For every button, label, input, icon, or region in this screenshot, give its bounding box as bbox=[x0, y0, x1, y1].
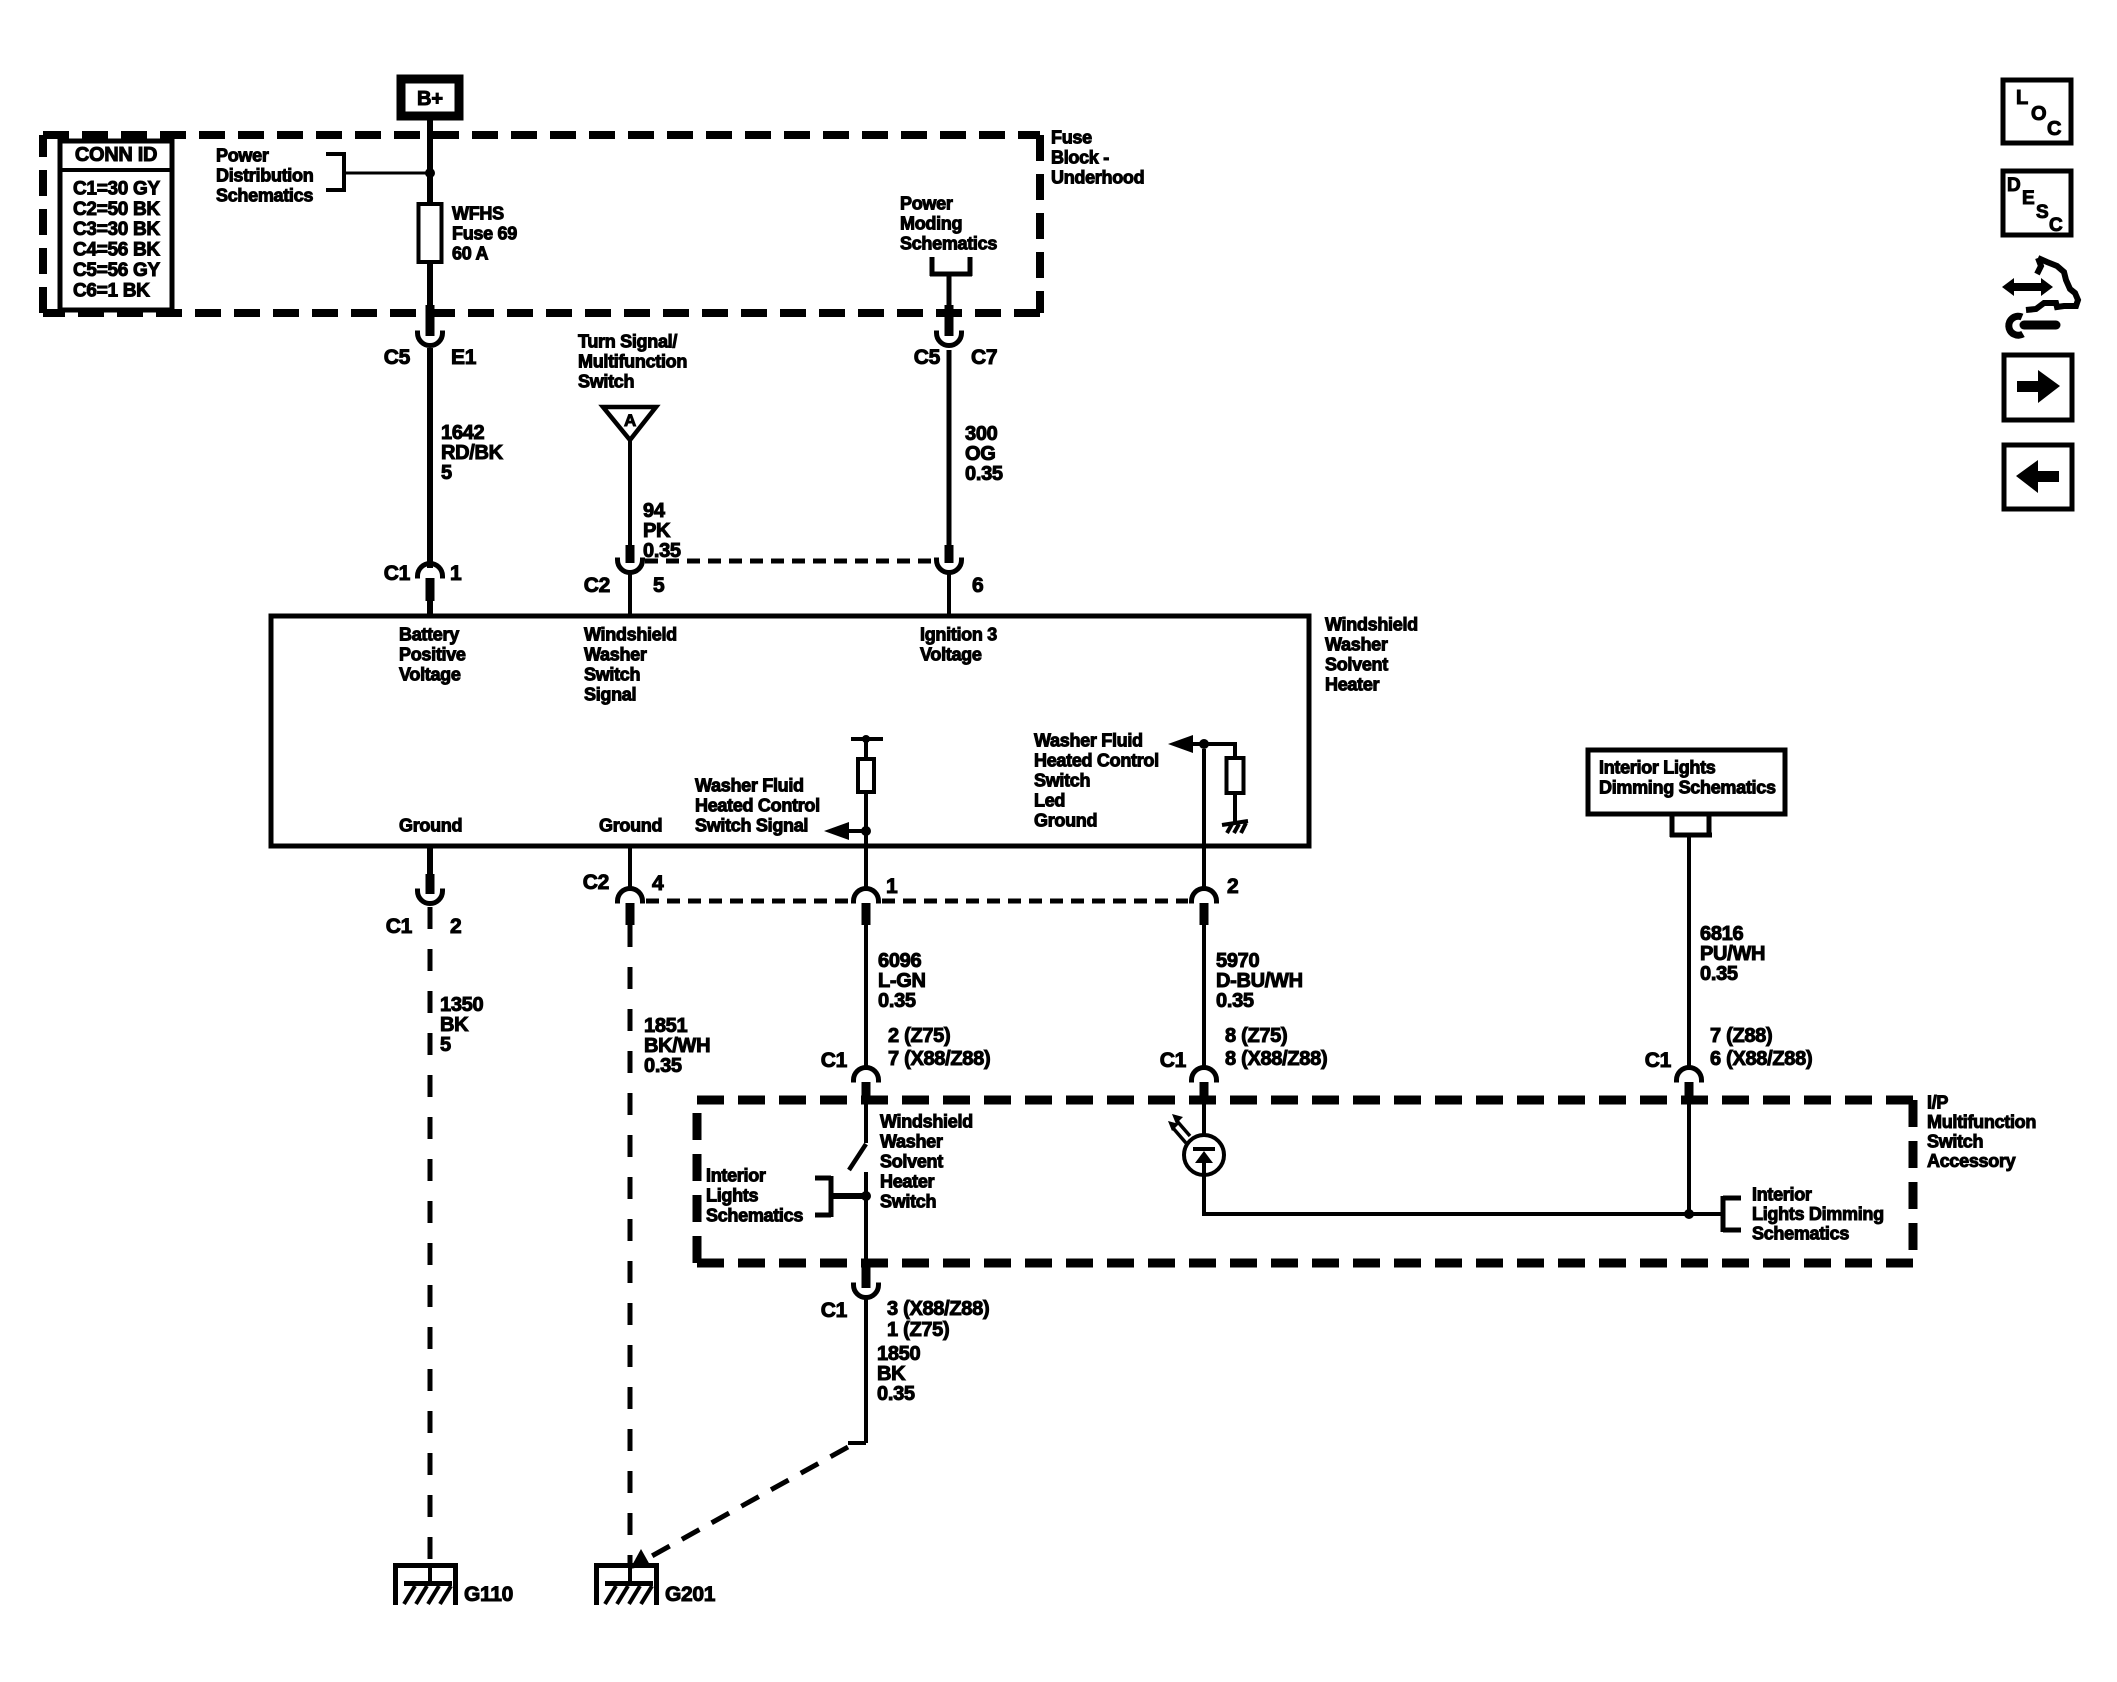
svg-text:1350: 1350 bbox=[440, 994, 483, 1016]
svg-text:1850: 1850 bbox=[877, 1343, 920, 1365]
wire - fuse output down to C5 connector (5 ga) bbox=[427, 262, 433, 310]
connector C2-4 (module ground out) bbox=[618, 889, 643, 902]
svg-text:G110: G110 bbox=[464, 1583, 513, 1606]
bracket - power distribution tie bbox=[326, 152, 344, 156]
svg-text:Windshield: Windshield bbox=[1325, 615, 1418, 635]
svg-text:PK: PK bbox=[643, 520, 671, 542]
svg-text:Ground: Ground bbox=[399, 816, 462, 836]
wire - led ground to pin 2 bbox=[1202, 749, 1206, 889]
svg-text:L-GN: L-GN bbox=[878, 970, 926, 992]
wire 6096 L-GN 0.35 bbox=[864, 925, 868, 1068]
svg-text:A: A bbox=[624, 411, 636, 430]
svg-text:Interior: Interior bbox=[706, 1166, 766, 1186]
svg-text:C: C bbox=[2049, 215, 2063, 236]
svg-text:Heated Control: Heated Control bbox=[695, 796, 820, 816]
wire - led ground to interior lights dimming (horizontal) bbox=[1204, 1212, 1723, 1216]
connector pin 1 (switch signal) bbox=[854, 889, 879, 902]
svg-text:C5=56 GY: C5=56 GY bbox=[73, 260, 160, 281]
svg-text:Washer: Washer bbox=[584, 645, 647, 665]
connector C2-5 (washer switch signal) bbox=[626, 545, 635, 563]
svg-text:C1: C1 bbox=[821, 1299, 848, 1322]
svg-text:Heater: Heater bbox=[880, 1172, 935, 1192]
svg-text:C6=1 BK: C6=1 BK bbox=[73, 280, 150, 301]
svg-text:Lights Dimming: Lights Dimming bbox=[1752, 1204, 1884, 1224]
node - junction dot on B+ feed bbox=[425, 168, 435, 178]
svg-text:7 (X88/Z88): 7 (X88/Z88) bbox=[888, 1048, 990, 1070]
svg-text:C1=30 GY: C1=30 GY bbox=[73, 178, 160, 199]
bracket - dimming schematics feed bbox=[1670, 814, 1675, 837]
arrow - switch signal points left bbox=[824, 822, 849, 840]
svg-text:6 (X88/Z88): 6 (X88/Z88) bbox=[1710, 1048, 1812, 1070]
svg-text:3 (X88/Z88): 3 (X88/Z88) bbox=[887, 1298, 989, 1320]
node - junction dimming net bbox=[1684, 1209, 1694, 1219]
svg-text:5: 5 bbox=[440, 1034, 451, 1056]
wire - B+ feed down into fuse block (5 ga) bbox=[427, 116, 433, 206]
svg-text:Dimming Schematics: Dimming Schematics bbox=[1599, 778, 1776, 798]
connector C1-2 (module ground out) bbox=[426, 874, 435, 894]
arrow - splice points at G201 bbox=[630, 1549, 650, 1569]
node A - turn signal multifunction switch triangle bbox=[603, 407, 656, 440]
svg-text:Voltage: Voltage bbox=[920, 645, 982, 665]
svg-text:G201: G201 bbox=[665, 1583, 716, 1606]
svg-text:6816: 6816 bbox=[1700, 923, 1743, 945]
component box - I/P Multifunction Switch Accessory (dashed) bbox=[697, 1096, 1913, 1105]
svg-text:Washer: Washer bbox=[1325, 635, 1388, 655]
icon - back arrow button bbox=[2004, 445, 2072, 509]
svg-text:0.35: 0.35 bbox=[644, 1055, 682, 1077]
svg-text:Windshield: Windshield bbox=[880, 1112, 973, 1132]
svg-text:C5: C5 bbox=[914, 346, 941, 369]
svg-text:8 (X88/Z88): 8 (X88/Z88) bbox=[1225, 1048, 1327, 1070]
svg-text:Switch Signal: Switch Signal bbox=[695, 816, 808, 836]
svg-text:0.35: 0.35 bbox=[878, 990, 916, 1012]
svg-text:C: C bbox=[2047, 118, 2061, 140]
component box - Windshield Washer Solvent Heater module bbox=[271, 616, 1309, 846]
svg-text:Washer Fluid: Washer Fluid bbox=[1034, 731, 1143, 751]
connector 6 (ignition 3 into module) bbox=[945, 545, 954, 563]
icon - forward arrow button bbox=[2004, 355, 2072, 420]
svg-text:BK/WH: BK/WH bbox=[644, 1035, 710, 1057]
svg-text:BK: BK bbox=[877, 1363, 906, 1385]
svg-text:Multifunction: Multifunction bbox=[1927, 1112, 2036, 1132]
svg-text:Accessory: Accessory bbox=[1927, 1151, 2016, 1171]
svg-text:C7: C7 bbox=[971, 346, 997, 369]
table - CONN ID legend bbox=[60, 141, 172, 310]
svg-text:Switch: Switch bbox=[880, 1192, 936, 1212]
svg-text:Voltage: Voltage bbox=[399, 665, 461, 685]
svg-text:Heater: Heater bbox=[1325, 675, 1380, 695]
svg-text:60 A: 60 A bbox=[452, 244, 488, 264]
wire 1850 BK 0.35 bbox=[864, 1297, 868, 1443]
svg-text:2 (Z75): 2 (Z75) bbox=[888, 1025, 950, 1047]
internal chassis ground - led ground bbox=[1222, 821, 1248, 825]
connector C1 (switch signal into I/P switch) bbox=[854, 1068, 879, 1081]
svg-text:1642: 1642 bbox=[441, 422, 484, 444]
svg-text:1 (Z75): 1 (Z75) bbox=[887, 1319, 949, 1341]
svg-text:PU/WH: PU/WH bbox=[1700, 943, 1765, 965]
wire - switch output down bbox=[864, 1196, 868, 1265]
connector pin 2 (led ground) bbox=[1192, 889, 1217, 902]
svg-text:Positive: Positive bbox=[399, 645, 466, 665]
svg-text:5: 5 bbox=[653, 574, 665, 597]
svg-text:S: S bbox=[2036, 202, 2049, 223]
wire - battery feed into module (5 ga) bbox=[427, 598, 433, 618]
svg-text:1: 1 bbox=[886, 875, 898, 898]
svg-text:Windshield: Windshield bbox=[584, 625, 677, 645]
svg-text:Battery: Battery bbox=[399, 625, 459, 645]
wire - led cathode to dimming net bbox=[1202, 1175, 1206, 1216]
wire 6816 PU/WH 0.35 bbox=[1687, 837, 1691, 1068]
component box - Fuse Block Underhood (dashed) bbox=[43, 131, 1040, 139]
svg-text:OG: OG bbox=[965, 443, 996, 465]
connector C5-C7 (fuse block to harness) bbox=[945, 305, 954, 336]
svg-text:E1: E1 bbox=[451, 346, 477, 369]
svg-text:0.35: 0.35 bbox=[877, 1383, 915, 1405]
internal resistor - led ground dropping resistor bbox=[1204, 742, 1235, 746]
svg-text:Power: Power bbox=[216, 146, 269, 166]
svg-text:Switch: Switch bbox=[584, 665, 640, 685]
svg-text:E: E bbox=[2022, 188, 2035, 209]
connector C1 (switch ground out of I/P switch) bbox=[862, 1265, 871, 1288]
connector C5-E1 (fuse block to harness) bbox=[426, 305, 435, 336]
svg-text:Washer: Washer bbox=[880, 1132, 943, 1152]
svg-text:Multifunction: Multifunction bbox=[578, 352, 687, 372]
bracket - interior lights dimming schematics tie bbox=[1721, 1196, 1726, 1232]
power node B+ terminal box bbox=[401, 79, 459, 116]
svg-text:C5: C5 bbox=[384, 346, 411, 369]
wire - module ground 2 to C2-4 bbox=[628, 846, 632, 889]
svg-text:Ground: Ground bbox=[1034, 811, 1097, 831]
fuse F69 - WFHS Fuse 69 60 A bbox=[427, 204, 433, 262]
node - junction at switch output bbox=[861, 1191, 871, 1201]
svg-text:C4=56 BK: C4=56 BK bbox=[73, 240, 160, 261]
svg-text:C2=50 BK: C2=50 BK bbox=[73, 199, 160, 220]
wire 94 PK 0.35 from triangle A bbox=[628, 440, 632, 547]
svg-text:0.35: 0.35 bbox=[1700, 963, 1738, 985]
svg-text:I/P: I/P bbox=[1927, 1093, 1948, 1113]
svg-text:Turn Signal/: Turn Signal/ bbox=[578, 332, 677, 352]
svg-text:7 (Z88): 7 (Z88) bbox=[1710, 1025, 1772, 1047]
svg-text:Ground: Ground bbox=[599, 816, 662, 836]
svg-text:C1: C1 bbox=[384, 562, 411, 585]
svg-text:Moding: Moding bbox=[900, 214, 962, 234]
svg-text:C2: C2 bbox=[583, 871, 609, 894]
svg-text:Heated Control: Heated Control bbox=[1034, 751, 1159, 771]
arrow - led ground points left bbox=[1168, 735, 1193, 753]
wire - 1850 hook bbox=[848, 1441, 866, 1445]
svg-text:8 (Z75): 8 (Z75) bbox=[1225, 1025, 1287, 1047]
wire - power distribution tap bbox=[344, 172, 430, 175]
svg-text:Schematics: Schematics bbox=[706, 1206, 803, 1226]
node - junction on switch signal bbox=[861, 826, 871, 836]
svg-text:C1: C1 bbox=[1160, 1049, 1187, 1072]
svg-text:D: D bbox=[2007, 175, 2021, 196]
switch - windshield washer solvent heater switch bbox=[864, 1102, 868, 1143]
svg-text:94: 94 bbox=[643, 500, 666, 522]
svg-text:0.35: 0.35 bbox=[965, 463, 1003, 485]
svg-text:5: 5 bbox=[441, 462, 452, 484]
wire 1350 BK 5 (dashed to G110) bbox=[428, 907, 433, 1563]
bracket - power moding feed bbox=[930, 257, 935, 276]
led light arrows bbox=[1177, 1121, 1190, 1136]
svg-text:6: 6 bbox=[972, 574, 983, 597]
svg-text:2: 2 bbox=[450, 915, 461, 938]
svg-text:Interior Lights: Interior Lights bbox=[1599, 758, 1716, 778]
svg-text:D-BU/WH: D-BU/WH bbox=[1216, 970, 1303, 992]
svg-text:5970: 5970 bbox=[1216, 950, 1259, 972]
icon - wrench part bbox=[2024, 321, 2056, 330]
wire - washer switch signal into module bbox=[628, 573, 632, 618]
svg-text:L: L bbox=[2016, 87, 2028, 109]
wire 5970 D-BU/WH 0.35 bbox=[1202, 925, 1206, 1068]
svg-text:0.35: 0.35 bbox=[1216, 990, 1254, 1012]
wire - ignition 3 feed out of fuse block bbox=[947, 276, 952, 310]
svg-text:WFHS: WFHS bbox=[452, 204, 504, 224]
ground G110 bbox=[393, 1563, 458, 1568]
svg-text:6096: 6096 bbox=[878, 950, 921, 972]
connector C1 (led ground into I/P switch) bbox=[1192, 1068, 1217, 1081]
ground G201 bbox=[594, 1563, 659, 1568]
svg-text:Distribution: Distribution bbox=[216, 166, 313, 186]
wire 300 OG 0.35 bbox=[947, 350, 952, 545]
svg-text:C1: C1 bbox=[1645, 1049, 1672, 1072]
svg-text:Lights: Lights bbox=[706, 1186, 758, 1206]
svg-text:RD/BK: RD/BK bbox=[441, 442, 504, 464]
internal resistor - washer fluid switch signal pull-up bbox=[851, 737, 883, 741]
svg-text:4: 4 bbox=[652, 872, 664, 895]
dotted link - connector row 4 to 1 to 2 bbox=[646, 899, 850, 904]
svg-text:C2: C2 bbox=[584, 574, 610, 597]
svg-text:C3=30 BK: C3=30 BK bbox=[73, 219, 160, 240]
svg-text:Signal: Signal bbox=[584, 685, 636, 705]
svg-text:Schematics: Schematics bbox=[216, 186, 313, 206]
svg-text:Interior: Interior bbox=[1752, 1185, 1812, 1205]
svg-text:O: O bbox=[2031, 103, 2047, 125]
svg-text:BK: BK bbox=[440, 1014, 469, 1036]
icon - vehicle navigation (double arrow, outline, wrench) bbox=[2002, 278, 2053, 296]
bracket - interior lights tie to switch bbox=[815, 1176, 831, 1181]
svg-text:Solvent: Solvent bbox=[1325, 655, 1388, 675]
svg-text:Led: Led bbox=[1034, 791, 1065, 811]
wire - dimming feed down to junction bbox=[1687, 1102, 1691, 1214]
svg-text:B+: B+ bbox=[417, 88, 443, 110]
svg-text:Washer Fluid: Washer Fluid bbox=[695, 776, 804, 796]
icon - DESC button bbox=[2003, 171, 2071, 235]
svg-text:2: 2 bbox=[1227, 875, 1238, 898]
svg-text:1851: 1851 bbox=[644, 1015, 687, 1037]
svg-text:CONN ID: CONN ID bbox=[75, 144, 157, 166]
wire - dashed splice run to G201 bbox=[650, 1447, 848, 1557]
svg-text:Block -: Block - bbox=[1051, 148, 1109, 168]
wire - switch signal to pin 1 bbox=[864, 846, 868, 889]
svg-text:C1: C1 bbox=[821, 1049, 848, 1072]
connector C1 (dimming feed into I/P switch) bbox=[1677, 1068, 1702, 1081]
connector C1-1 (into washer heater module) bbox=[418, 564, 443, 577]
dotted link - connector row C2-5 to pin 6 bbox=[645, 559, 934, 564]
svg-text:Schematics: Schematics bbox=[900, 234, 997, 254]
wire 1642 RD/BK 5 bbox=[427, 348, 433, 568]
svg-text:Switch: Switch bbox=[578, 372, 634, 392]
svg-text:300: 300 bbox=[965, 423, 998, 445]
svg-text:1: 1 bbox=[450, 562, 462, 585]
svg-text:Switch: Switch bbox=[1927, 1132, 1983, 1152]
wire - module ground to C1-2 (5 ga) bbox=[427, 846, 433, 878]
svg-text:Schematics: Schematics bbox=[1752, 1224, 1849, 1244]
reference box - Interior Lights Dimming Schematics bbox=[1588, 750, 1785, 814]
svg-text:Power: Power bbox=[900, 194, 953, 214]
svg-text:Fuse: Fuse bbox=[1051, 128, 1092, 148]
svg-text:Fuse 69: Fuse 69 bbox=[452, 224, 517, 244]
led - washer fluid heated control switch led bbox=[1202, 1102, 1206, 1136]
svg-text:Ignition 3: Ignition 3 bbox=[920, 625, 997, 645]
svg-text:Solvent: Solvent bbox=[880, 1152, 943, 1172]
svg-text:C1: C1 bbox=[386, 915, 413, 938]
svg-text:Switch: Switch bbox=[1034, 771, 1090, 791]
icon - LOC button bbox=[2003, 80, 2071, 143]
wire - ignition 3 into module bbox=[947, 573, 951, 618]
svg-text:Underhood: Underhood bbox=[1051, 168, 1144, 188]
wire 1851 BK/WH 0.35 (dashed to G201) bbox=[628, 925, 633, 1563]
node - junction on led ground net bbox=[1199, 739, 1209, 749]
